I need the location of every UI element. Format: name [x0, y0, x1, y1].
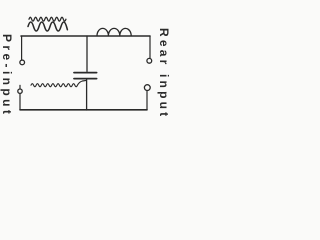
capacitor C1 plates: [74, 72, 97, 74]
wire bottom rail: [20, 109, 147, 111]
capacitor C1 top lead: [86, 36, 88, 71]
inductor L2 (three humps on top rail): [97, 28, 131, 35]
wire right bottom vertical: [146, 91, 148, 110]
terminal circle rear-input top: [147, 58, 152, 63]
capacitor C1 bottom lead: [86, 80, 88, 111]
wire left vertical to top terminal: [21, 36, 23, 60]
inductor L3 (wavy element to capacitor junction): [31, 80, 86, 86]
terminal circle pre-input top: [20, 60, 25, 65]
inductor L1 coil (large wavy line): [28, 22, 67, 31]
wire left bottom vertical: [19, 93, 21, 109]
wire right vertical to top terminal: [149, 36, 151, 58]
inductor L1 core (small wavy line): [29, 17, 66, 21]
terminal circle rear-input bottom: [144, 85, 150, 91]
terminal circle pre-input bottom: [18, 89, 22, 93]
wire top rail: [21, 35, 150, 37]
label Pre-input: [0, 34, 14, 117]
label Rear input: [157, 28, 171, 119]
wire stub above pre-input lower terminal: [19, 85, 21, 88]
